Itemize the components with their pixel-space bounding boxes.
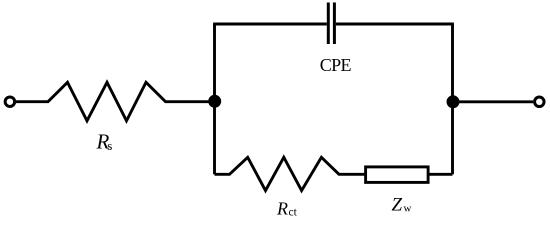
- svg-text:ct: ct: [289, 207, 298, 219]
- svg-text:CPE: CPE: [320, 55, 352, 75]
- svg-text:s: s: [107, 138, 112, 153]
- svg-text:w: w: [404, 203, 412, 215]
- svg-text:R: R: [276, 199, 288, 219]
- svg-text:Z: Z: [392, 195, 403, 216]
